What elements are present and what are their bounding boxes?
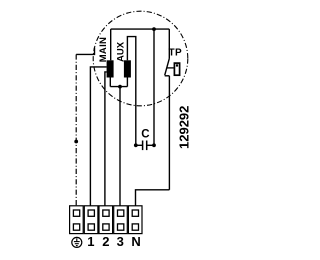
winding AUX (filled rectangle) [124, 60, 131, 77]
terminal cell PE [70, 206, 84, 234]
TP thermal element body [174, 63, 179, 75]
terminal cell 1 [84, 206, 98, 234]
earth terminal symbol [72, 237, 82, 247]
svg-text:129292: 129292 [177, 106, 192, 149]
wire: MAIN top vertical [110, 29, 112, 60]
svg-text:TP: TP [169, 48, 183, 59]
terminal screws top row [73, 210, 79, 216]
node: common junction dot [118, 85, 122, 89]
thermal protector TP [165, 59, 180, 76]
svg-text:3: 3 [117, 234, 124, 249]
wire: earth dash-dot down to earth terminal [75, 54, 77, 205]
wire: MAIN bottom stub [109, 78, 111, 87]
wire: capacitor right lead [147, 144, 154, 146]
wire: TP down vertical [168, 76, 170, 190]
wire: AUX top loop to capacitor left lead [127, 37, 135, 146]
wire: earth bond from enclosure [76, 48, 94, 55]
terminal cell 3 [114, 206, 128, 234]
wire: run to terminal N [136, 190, 170, 206]
node: capacitor right dot [152, 143, 156, 147]
node: dot on earth line [74, 140, 78, 144]
svg-text:2: 2 [102, 234, 109, 249]
wire: top bus from MAIN top to TP feed [111, 28, 170, 30]
svg-text:1: 1 [87, 234, 94, 249]
svg-text:N: N [131, 234, 140, 249]
wire: common bottom link [110, 86, 127, 88]
capacitor C [134, 141, 156, 151]
terminal screws bottom row [73, 224, 79, 230]
node: junction dot on top bus [152, 27, 156, 31]
wire: capacitor right lead vertical [153, 29, 155, 145]
TP element link [167, 67, 174, 69]
TP element inner mark [176, 64, 178, 66]
terminal cell 2 [99, 206, 113, 234]
svg-text:MAIN: MAIN [98, 37, 109, 62]
wire: MAIN tap 2 to terminal 2 [105, 72, 107, 206]
wire: common down to terminal 3 [119, 87, 121, 206]
terminal block [70, 206, 142, 234]
capacitor plate right [146, 141, 148, 151]
wire: TP feed vertical [168, 29, 170, 58]
winding MAIN (filled rectangle) [107, 60, 114, 77]
svg-text:AUX: AUX [115, 41, 126, 62]
wire: AUX bottom stub [126, 78, 128, 87]
svg-text:C: C [141, 129, 149, 141]
TP switch blade [165, 59, 170, 76]
wire: capacitor left lead [136, 144, 142, 146]
capacitor plate left [142, 141, 144, 151]
motor boundary circle (dash-dot enclosure) [93, 11, 188, 106]
node: capacitor left dot [134, 143, 138, 147]
terminal cell N [128, 206, 142, 234]
wire: MAIN tap 1 to terminal 1 [90, 67, 106, 206]
TP bottom foot [165, 75, 170, 77]
